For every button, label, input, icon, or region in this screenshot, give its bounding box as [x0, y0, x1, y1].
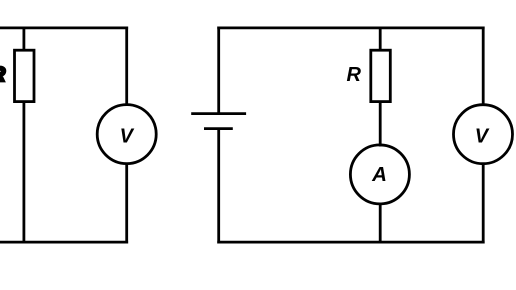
wire: right circuit bottom rail: [217, 241, 484, 244]
svg-text:V: V: [120, 125, 135, 147]
voltmeter V2 (right circuit): [454, 105, 513, 164]
svg-text:V: V: [475, 125, 490, 147]
wire: left circuit left branch upper segment: [22, 28, 25, 51]
resistor R2 (right circuit): [371, 50, 391, 101]
wire: left circuit right branch upper segment: [125, 27, 128, 106]
wire: left circuit top rail: [0, 26, 128, 29]
wire: left circuit left branch lower segment: [22, 102, 25, 243]
wire: right circuit right branch upper segment: [482, 27, 485, 106]
ammeter A1: [350, 145, 409, 204]
svg-text:R: R: [0, 64, 6, 86]
wire: battery branch upper segment: [217, 27, 220, 114]
wire: middle branch segment between resistor and ammeter: [379, 102, 382, 147]
wire: battery branch lower segment: [217, 129, 220, 244]
svg-text:R: R: [347, 64, 362, 86]
resistor R1 (left circuit): [15, 50, 35, 101]
wire: middle branch lower segment: [379, 203, 382, 243]
wire: right circuit top rail: [217, 26, 484, 29]
voltmeter V1 (left circuit): [97, 105, 156, 164]
svg-text:A: A: [371, 163, 387, 186]
wire: left circuit bottom rail: [0, 241, 128, 244]
wire: right circuit right branch lower segment: [482, 163, 485, 244]
battery cell B1: short plate (negative): [204, 127, 233, 130]
wire: middle branch upper segment: [379, 28, 382, 51]
battery cell B1: long plate (positive): [191, 112, 246, 115]
wire: left circuit right branch lower segment: [125, 163, 128, 244]
